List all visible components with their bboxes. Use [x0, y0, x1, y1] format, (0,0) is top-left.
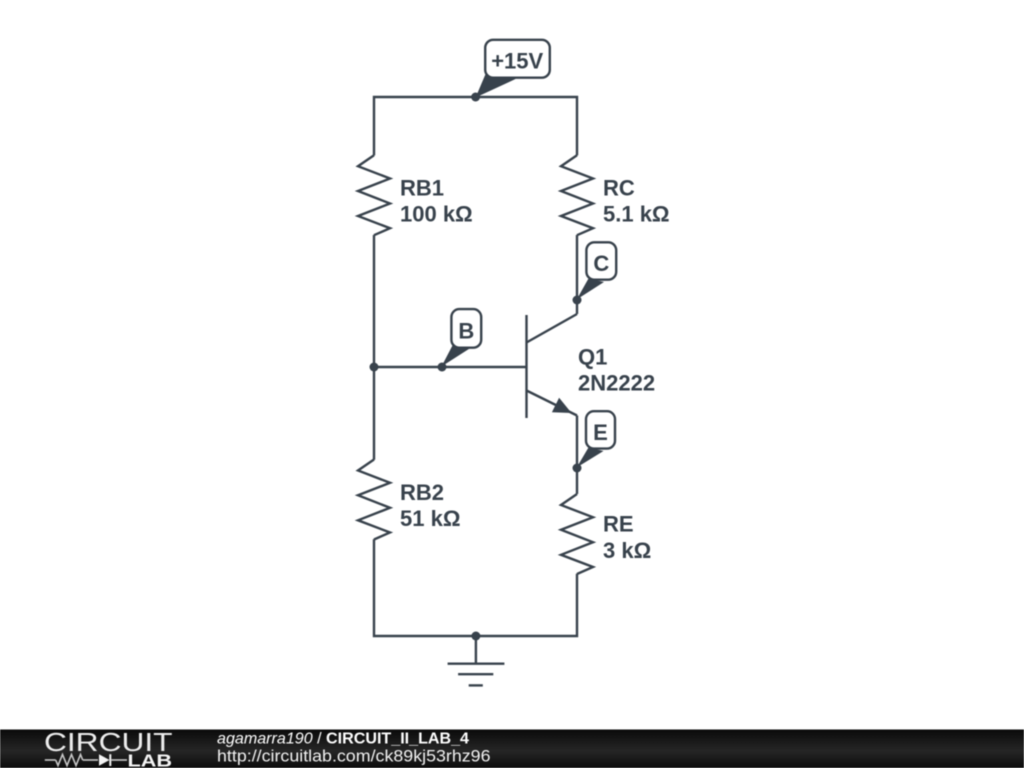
transistor Q1 2N2222 [527, 314, 578, 418]
resistor RB1 [358, 155, 390, 235]
svg-text:C: C [593, 251, 609, 276]
svg-text:RB2: RB2 [400, 480, 444, 505]
label RB2 51 k [400, 480, 460, 531]
wire left bottom + ground rail [374, 539, 577, 636]
resistor RE [561, 494, 593, 574]
svg-text:+15V: +15V [491, 49, 543, 74]
label Q1 value 2N2222 [578, 345, 655, 396]
node C flag [573, 242, 617, 304]
wire collector vertical [576, 235, 578, 314]
svg-text:RE: RE [603, 512, 634, 537]
svg-text:51 kΩ: 51 kΩ [400, 506, 460, 531]
svg-text:100 kΩ: 100 kΩ [400, 202, 473, 227]
svg-text:http://circuitlab.com/ck89kj53: http://circuitlab.com/ck89kj53rhz96 [217, 748, 491, 766]
label RC 5.1 k [603, 176, 670, 227]
svg-text:E: E [593, 420, 608, 445]
label RE 3 k [603, 512, 651, 564]
svg-text:Q1: Q1 [578, 345, 607, 370]
ground junction dot [471, 632, 480, 641]
svg-text:RC: RC [603, 176, 635, 201]
resistor RB2 [358, 460, 390, 540]
wire base [374, 366, 527, 368]
node E flag [573, 411, 616, 472]
svg-text:LAB: LAB [128, 750, 173, 768]
svg-text:3 kΩ: 3 kΩ [603, 538, 651, 563]
node B flag [438, 309, 482, 371]
svg-text:agamarra190 / CIRCUIT_II_LAB_4: agamarra190 / CIRCUIT_II_LAB_4 [217, 731, 469, 748]
wire top rail V+ [374, 97, 577, 155]
svg-text:2N2222: 2N2222 [578, 371, 655, 396]
resistor RC [561, 155, 593, 235]
ground [448, 636, 505, 685]
junction dot base-left rail [370, 363, 379, 372]
svg-text:5.1 kΩ: 5.1 kΩ [603, 202, 670, 227]
power flag +15V [471, 40, 550, 102]
footer logo resistor-diode symbol [45, 754, 127, 766]
svg-text:B: B [458, 318, 474, 343]
footer bar [0, 730, 1024, 768]
svg-text:RB1: RB1 [400, 176, 444, 201]
label RB1 100 k [400, 176, 473, 227]
wire left middle (RB1 to base node) [373, 235, 375, 460]
wire emitter vertical [576, 416, 578, 495]
